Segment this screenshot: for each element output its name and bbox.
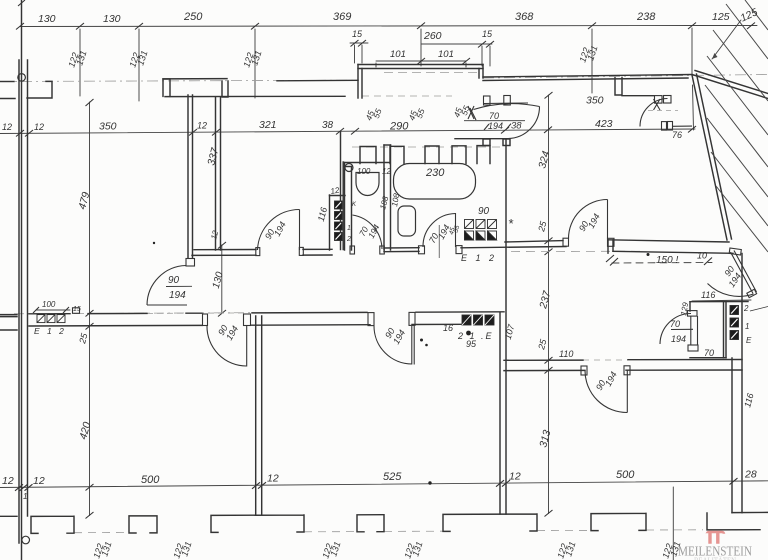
svg-text:369: 369 (333, 11, 351, 23)
svg-text:194: 194 (169, 290, 186, 301)
svg-text:12: 12 (2, 475, 14, 487)
svg-text:250: 250 (183, 11, 203, 23)
svg-text:38: 38 (322, 120, 334, 131)
svg-text:130: 130 (38, 13, 56, 25)
svg-text:E 1 2: E 1 2 (461, 253, 497, 263)
svg-text:260: 260 (423, 30, 442, 42)
svg-text:321: 321 (259, 119, 277, 131)
svg-text:12: 12 (34, 122, 44, 132)
svg-text:230: 230 (425, 167, 445, 179)
svg-text:423: 423 (595, 118, 613, 130)
svg-text:125: 125 (712, 11, 730, 23)
svg-text:2: 2 (346, 236, 351, 243)
svg-text:76: 76 (672, 130, 682, 140)
svg-text:500: 500 (616, 469, 635, 481)
svg-text:238: 238 (636, 11, 656, 23)
svg-text:101: 101 (390, 49, 406, 60)
svg-text:90: 90 (168, 275, 180, 286)
svg-text:E 1 2: E 1 2 (34, 326, 66, 336)
svg-text:12: 12 (33, 475, 45, 487)
svg-text:350: 350 (586, 95, 604, 107)
svg-text:100: 100 (42, 300, 56, 309)
svg-text:12: 12 (382, 167, 391, 176)
svg-text:194: 194 (671, 334, 686, 344)
svg-text:130: 130 (103, 13, 121, 25)
svg-text:90: 90 (478, 206, 490, 217)
svg-text:116: 116 (701, 290, 715, 300)
svg-text:350: 350 (99, 121, 117, 133)
svg-text:REALITÄTEN: REALITÄTEN (694, 556, 736, 560)
svg-text:100: 100 (357, 167, 371, 176)
svg-text:70: 70 (704, 348, 714, 358)
svg-text:500: 500 (141, 474, 160, 486)
svg-text:16: 16 (443, 323, 453, 333)
svg-text:15: 15 (73, 306, 81, 313)
svg-text:12: 12 (197, 121, 207, 131)
svg-text:368: 368 (515, 11, 534, 23)
svg-text:12: 12 (267, 473, 279, 485)
svg-text:12: 12 (2, 122, 12, 132)
svg-text:70: 70 (670, 319, 680, 329)
svg-text:70: 70 (489, 111, 499, 121)
svg-text:2: 2 (743, 304, 749, 313)
svg-text:95: 95 (466, 339, 477, 349)
svg-text:E: E (746, 336, 752, 345)
svg-text:38: 38 (511, 121, 522, 132)
svg-text:194: 194 (488, 121, 503, 131)
svg-text:10: 10 (697, 251, 707, 261)
svg-text:1: 1 (23, 492, 27, 501)
svg-text:12: 12 (509, 471, 521, 483)
svg-text:1: 1 (347, 225, 351, 232)
svg-text:110: 110 (559, 349, 573, 359)
svg-text:15: 15 (482, 29, 493, 39)
svg-text:150 !: 150 ! (656, 255, 678, 266)
svg-text:15: 15 (352, 29, 363, 39)
svg-text:101: 101 (438, 49, 454, 60)
svg-text:525: 525 (383, 471, 402, 483)
svg-text:1: 1 (745, 322, 749, 331)
svg-text:290: 290 (389, 121, 409, 133)
svg-text:28: 28 (744, 469, 757, 481)
